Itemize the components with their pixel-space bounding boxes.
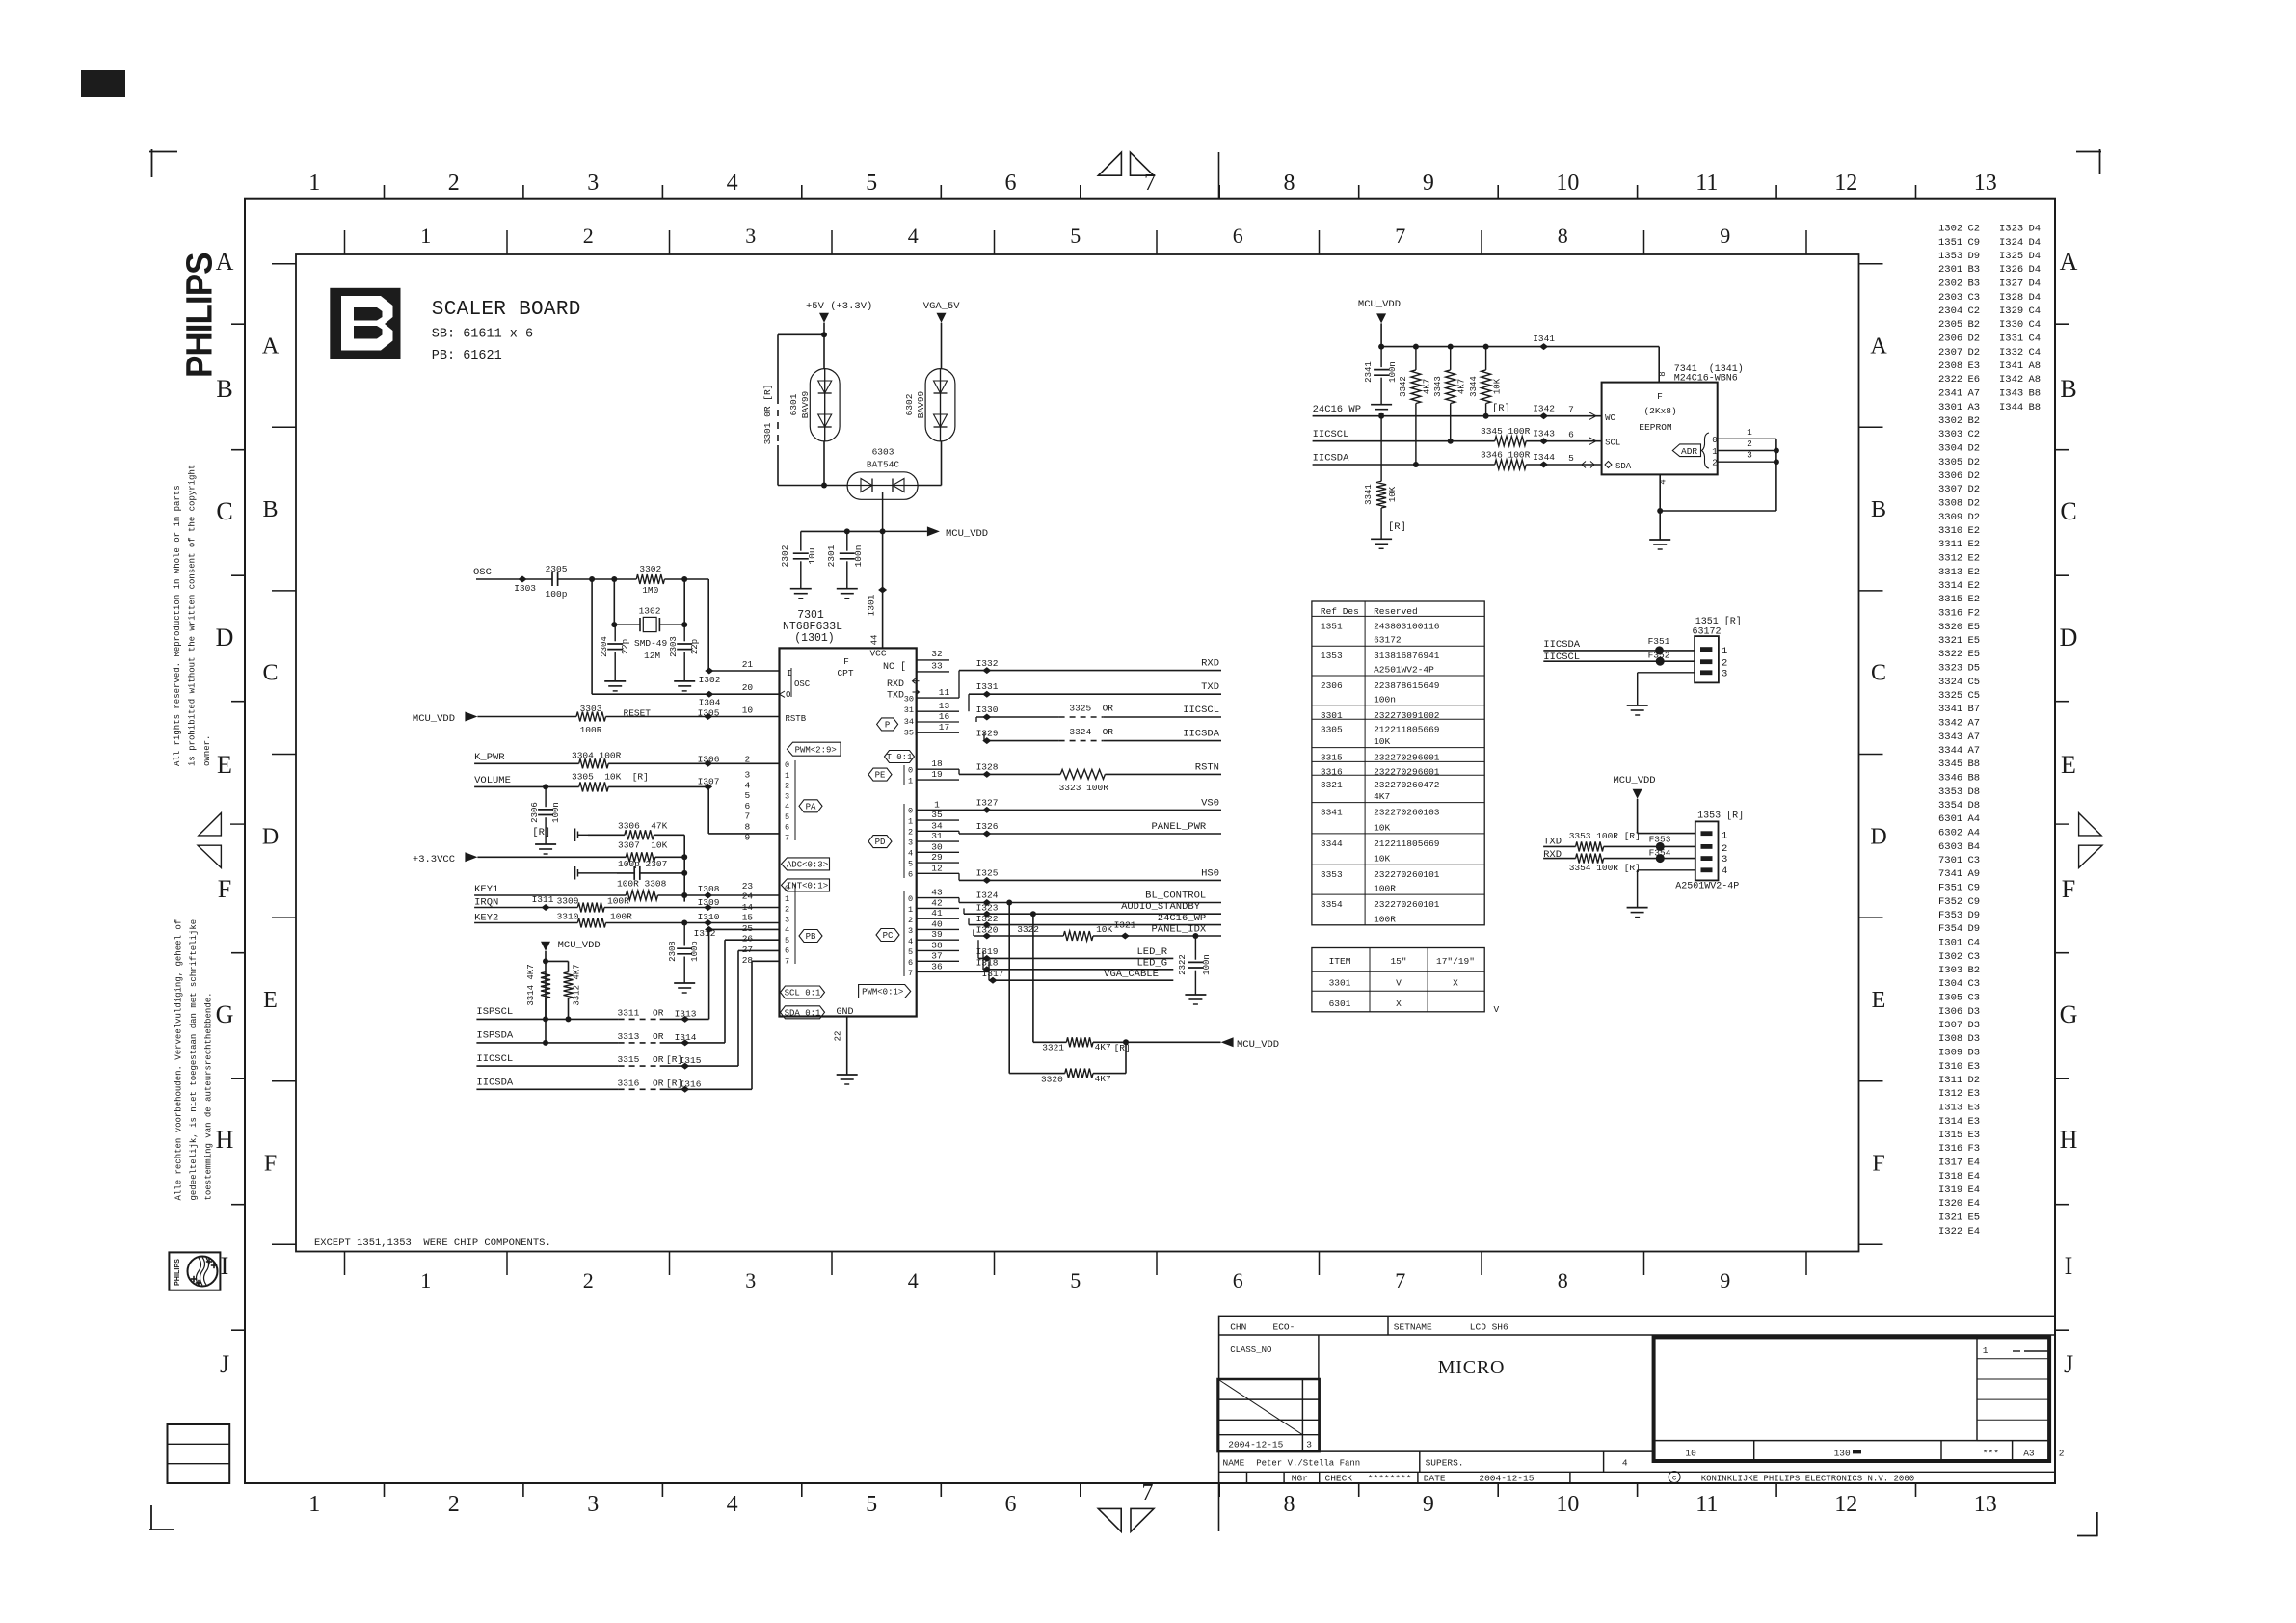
svg-text:22p: 22p xyxy=(621,639,630,654)
wire RXD xyxy=(959,670,1221,672)
svg-text:I327 D4: I327 D4 xyxy=(1999,279,2041,290)
svg-text:34: 34 xyxy=(904,717,914,727)
svg-text:25: 25 xyxy=(742,923,754,934)
svg-text:10: 10 xyxy=(1556,171,1579,196)
wire IICSCL isp xyxy=(476,1065,618,1067)
wire BL_CONTROL pull 3320 (vertical) xyxy=(1008,903,1010,1074)
wire IICSCL to connector xyxy=(1543,660,1695,662)
resistor 3310 100R xyxy=(577,918,605,928)
ground for IC pin 22 xyxy=(837,1074,858,1076)
svg-text:ITEM: ITEM xyxy=(1329,956,1351,967)
svg-text:5: 5 xyxy=(1070,1268,1081,1292)
svg-text:J: J xyxy=(2064,1350,2073,1378)
crystal 1302 SMD-49 12M xyxy=(614,624,640,625)
svg-text:5: 5 xyxy=(785,936,789,945)
svg-text:43: 43 xyxy=(931,888,943,898)
svg-text:I341: I341 xyxy=(1533,333,1555,344)
svg-text:7: 7 xyxy=(1395,224,1405,248)
svg-text:2301 B3: 2301 B3 xyxy=(1938,264,1980,276)
svg-text:I325 D4: I325 D4 xyxy=(1999,251,2041,262)
wire KEY1 xyxy=(474,894,626,896)
IC internal ADC<0:3> tag xyxy=(782,858,830,870)
connector 1351 body xyxy=(1695,636,1719,682)
svg-text:F: F xyxy=(264,1152,277,1177)
svg-text:4K7: 4K7 xyxy=(1095,1042,1111,1052)
IC right pin stubs 11 13 16 17 xyxy=(917,697,959,699)
svg-text:3: 3 xyxy=(908,838,913,848)
svg-text:I303: I303 xyxy=(514,583,536,594)
wire KEY2 xyxy=(474,922,577,924)
ground for 2301 xyxy=(837,588,858,590)
svg-text:13: 13 xyxy=(1974,1492,1997,1517)
svg-text:1: 1 xyxy=(420,224,431,248)
wire decoupling rail xyxy=(801,530,883,532)
svg-text:I306 D3: I306 D3 xyxy=(1938,1006,1980,1018)
svg-text:100R: 100R xyxy=(607,896,629,907)
svg-text:4K7: 4K7 xyxy=(1423,379,1432,394)
op-amp U7341 body (EEPROM box) xyxy=(1602,383,1718,475)
svg-text:5: 5 xyxy=(866,1492,877,1517)
svg-text:27: 27 xyxy=(742,945,753,955)
eeprom address pin 3 wire xyxy=(1718,461,1776,463)
power arrow MCU_VDD eeprom xyxy=(1376,313,1386,323)
wire LED_G xyxy=(982,950,984,969)
svg-text:4K7: 4K7 xyxy=(1374,791,1390,802)
svg-text:I342 A8: I342 A8 xyxy=(1999,374,2041,386)
svg-text:6: 6 xyxy=(1233,1268,1243,1292)
svg-text:3353 100R [R]: 3353 100R [R] xyxy=(1569,831,1641,841)
wire to pin 21 elbow xyxy=(681,576,687,582)
svg-text:3342: 3342 xyxy=(1399,376,1408,397)
ground for 2304 xyxy=(604,680,626,682)
resistor 3343 4K7 (vertical) xyxy=(1446,370,1455,404)
svg-text:13: 13 xyxy=(939,701,950,711)
svg-text:4: 4 xyxy=(908,849,913,859)
svg-text:2004-12-15: 2004-12-15 xyxy=(1228,1440,1283,1450)
svg-text:5: 5 xyxy=(785,812,789,822)
svg-text:3344: 3344 xyxy=(1469,376,1479,397)
svg-text:I332: I332 xyxy=(976,658,999,669)
capacitor 2305 100p xyxy=(551,572,553,586)
assembly marker B block xyxy=(330,288,400,359)
svg-text:F: F xyxy=(1872,1152,1884,1177)
svg-text:0: 0 xyxy=(908,807,913,816)
title block NAME row xyxy=(1219,1450,1654,1452)
svg-text:2303 C3: 2303 C3 xyxy=(1938,292,1980,304)
svg-text:PHILIPS: PHILIPS xyxy=(178,253,220,378)
svg-text:A3: A3 xyxy=(2023,1449,2035,1459)
wire IICSCL right xyxy=(976,716,1059,718)
svg-text:IICSCL: IICSCL xyxy=(476,1053,513,1065)
svg-text:E: E xyxy=(217,751,232,779)
svg-text:232273091002: 232273091002 xyxy=(1374,710,1440,721)
svg-text:100p: 100p xyxy=(546,589,568,599)
svg-text:12: 12 xyxy=(931,863,943,873)
svg-text:Peter V./Stella Fann: Peter V./Stella Fann xyxy=(1256,1459,1360,1469)
svg-text:3315: 3315 xyxy=(1321,753,1343,763)
svg-text:OR: OR xyxy=(653,1054,664,1065)
svg-text:SB: 61611 x 6: SB: 61611 x 6 xyxy=(432,328,533,342)
svg-text:VGA_5V: VGA_5V xyxy=(923,301,961,312)
capacitor 2303 22p xyxy=(683,625,685,641)
svg-text:14: 14 xyxy=(742,902,754,913)
svg-text:24C16_WP: 24C16_WP xyxy=(1313,404,1361,415)
svg-text:RESET: RESET xyxy=(624,708,652,719)
svg-text:3311 E2: 3311 E2 xyxy=(1938,539,1980,550)
wire eeprom supply rail xyxy=(1380,323,1382,346)
svg-text:10K: 10K xyxy=(1096,924,1112,935)
svg-text:PC: PC xyxy=(883,931,894,941)
svg-text:3307 D2: 3307 D2 xyxy=(1938,484,1980,495)
svg-text:2: 2 xyxy=(2059,1449,2065,1459)
wire IICSDA isp xyxy=(476,1088,618,1090)
wire 24C16_WP right xyxy=(968,918,970,924)
power arrow +5V xyxy=(819,313,829,323)
svg-text:6: 6 xyxy=(1568,430,1574,440)
svg-text:I304: I304 xyxy=(699,698,721,708)
wire +5V down to diode 6301 xyxy=(823,323,825,369)
outer grid column ticks top xyxy=(384,185,386,199)
IC internal PE hexagon and bits xyxy=(868,768,892,781)
svg-text:6: 6 xyxy=(785,823,789,833)
svg-text:T 0:1: T 0:1 xyxy=(886,753,912,762)
svg-text:3305 D2: 3305 D2 xyxy=(1938,457,1980,468)
svg-text:(2Kx8): (2Kx8) xyxy=(1643,406,1676,416)
svg-text:3320: 3320 xyxy=(1041,1075,1063,1085)
svg-text:CHECK: CHECK xyxy=(1325,1474,1353,1484)
svg-text:1351 [R]: 1351 [R] xyxy=(1695,616,1742,627)
svg-text:F: F xyxy=(2062,875,2075,903)
svg-text:10K: 10K xyxy=(1388,486,1398,502)
svg-text:B: B xyxy=(262,497,278,522)
svg-text:I326: I326 xyxy=(976,821,999,832)
svg-text:PWM<2:9>: PWM<2:9> xyxy=(795,745,837,755)
svg-text:100R: 100R xyxy=(1374,884,1396,894)
svg-text:SETNAME: SETNAME xyxy=(1394,1322,1432,1333)
resistor 3346 100R xyxy=(1495,460,1526,469)
ground for connector 1353 xyxy=(1627,907,1648,909)
cap-to-ground symbol for 2307 xyxy=(574,866,576,880)
svg-text:19: 19 xyxy=(931,769,943,780)
svg-text:PB: 61621: PB: 61621 xyxy=(432,349,502,363)
svg-text:PANEL_IDX: PANEL_IDX xyxy=(1151,924,1206,936)
svg-text:PA: PA xyxy=(806,802,816,811)
svg-text:23: 23 xyxy=(742,881,754,891)
svg-text:1: 1 xyxy=(308,1492,320,1517)
connector 1351 pin bars xyxy=(1700,647,1712,652)
svg-text:2: 2 xyxy=(1712,459,1717,468)
svg-text:9: 9 xyxy=(1423,171,1434,196)
wire +3.3VCC xyxy=(477,856,626,858)
svg-text:5: 5 xyxy=(745,790,751,801)
svg-text:3316 F2: 3316 F2 xyxy=(1938,608,1980,620)
wire LED_R xyxy=(977,940,979,958)
svg-text:SMD-49: SMD-49 xyxy=(634,638,668,649)
svg-text:HS0: HS0 xyxy=(1201,867,1219,879)
svg-text:SDA: SDA xyxy=(1615,462,1632,471)
svg-text:3353: 3353 xyxy=(1321,869,1343,880)
svg-text:10K: 10K xyxy=(1374,822,1390,833)
svg-text:24: 24 xyxy=(742,891,754,902)
IC internal PA hexagon xyxy=(799,800,822,812)
svg-text:11: 11 xyxy=(939,687,950,698)
svg-text:1: 1 xyxy=(785,894,789,904)
resistor 3302 1M0 xyxy=(614,578,636,580)
ground for 2322 xyxy=(1185,994,1206,996)
power arrow MCU_VDD connector 1353 xyxy=(1633,789,1642,799)
svg-text:X: X xyxy=(1453,978,1458,989)
svg-text:I329 C4: I329 C4 xyxy=(1999,306,2041,317)
resistor 3354 100R xyxy=(1576,854,1604,864)
svg-text:1302: 1302 xyxy=(639,606,661,617)
svg-text:3354 D8: 3354 D8 xyxy=(1938,800,1980,811)
svg-text:3354: 3354 xyxy=(1321,899,1343,910)
wire RSTN xyxy=(958,769,960,774)
connector 1353 pin bars xyxy=(1701,831,1713,836)
svg-text:5: 5 xyxy=(908,947,913,957)
svg-text:IICSDA: IICSDA xyxy=(1543,639,1581,651)
svg-text:********: ******** xyxy=(1368,1474,1412,1484)
svg-text:6302 A4: 6302 A4 xyxy=(1938,828,1980,839)
svg-text:2305: 2305 xyxy=(546,564,568,574)
svg-text:I332 C4: I332 C4 xyxy=(1999,347,2041,359)
svg-text:F353 D9: F353 D9 xyxy=(1938,910,1980,921)
svg-text:0: 0 xyxy=(908,894,913,904)
svg-text:F351 C9: F351 C9 xyxy=(1938,883,1980,894)
wire eeprom address bus to ground xyxy=(1775,439,1777,511)
svg-text:I302 C3: I302 C3 xyxy=(1938,951,1980,963)
svg-text:MCU_VDD: MCU_VDD xyxy=(946,528,988,540)
svg-text:E: E xyxy=(263,988,278,1013)
svg-text:C: C xyxy=(262,661,278,686)
svg-text:8: 8 xyxy=(1284,1492,1295,1517)
svg-text:I327: I327 xyxy=(976,797,999,808)
svg-text:6: 6 xyxy=(908,870,913,880)
svg-text:I317 E4: I317 E4 xyxy=(1938,1157,1980,1169)
table Ref Des Reserved xyxy=(1312,601,1484,925)
svg-text:3345 100R: 3345 100R xyxy=(1481,426,1531,437)
svg-text:3323 D5: 3323 D5 xyxy=(1938,663,1980,675)
svg-text:BL_CONTROL: BL_CONTROL xyxy=(1145,891,1206,902)
svg-text:3306 47K: 3306 47K xyxy=(618,821,668,832)
IC right pin stubs NC 32 33 xyxy=(917,659,949,661)
svg-text:36: 36 xyxy=(931,962,943,972)
svg-text:100R 3308: 100R 3308 xyxy=(617,879,667,890)
svg-text:OR: OR xyxy=(653,1031,664,1042)
svg-text:12M: 12M xyxy=(644,651,660,661)
svg-text:10: 10 xyxy=(1556,1492,1579,1517)
ground for 2341 xyxy=(1371,404,1392,406)
svg-text:3310 E2: 3310 E2 xyxy=(1938,525,1980,537)
IC internal SCL 0:1 hexagon xyxy=(781,986,825,998)
svg-text:3304 100R: 3304 100R xyxy=(572,751,622,761)
svg-text:3325 OR: 3325 OR xyxy=(1069,703,1113,713)
wire 24C16_WP xyxy=(1313,415,1602,417)
svg-text:3307 10K: 3307 10K xyxy=(618,840,668,851)
svg-text:313816876941: 313816876941 xyxy=(1374,651,1440,661)
svg-text:2306: 2306 xyxy=(530,802,540,823)
svg-text:3: 3 xyxy=(745,770,751,781)
svg-text:2308: 2308 xyxy=(668,941,678,962)
fold marker triangles left edge xyxy=(199,813,222,836)
svg-text:32: 32 xyxy=(931,649,943,659)
svg-text:3314 4K7: 3314 4K7 xyxy=(526,964,536,1005)
svg-text:BAV99: BAV99 xyxy=(800,390,811,418)
svg-text:3316: 3316 xyxy=(618,1078,640,1089)
svg-text:TXD: TXD xyxy=(887,690,904,701)
svg-text:3341: 3341 xyxy=(1364,484,1374,505)
svg-text:7: 7 xyxy=(1144,171,1156,196)
svg-text:is prohibited without the writ: is prohibited without the written consen… xyxy=(188,465,198,766)
wire PANEL_IDX xyxy=(973,929,974,936)
svg-text:F352 C9: F352 C9 xyxy=(1938,896,1980,908)
svg-text:1: 1 xyxy=(908,777,913,786)
svg-text:I344: I344 xyxy=(1533,452,1555,463)
svg-text:3: 3 xyxy=(1722,669,1727,680)
svg-text:232270260101: 232270260101 xyxy=(1374,899,1440,910)
svg-text:F: F xyxy=(218,875,231,903)
svg-text:40: 40 xyxy=(931,918,943,929)
svg-text:2307 D2: 2307 D2 xyxy=(1938,347,1980,359)
svg-text:[R]: [R] xyxy=(1492,403,1510,414)
svg-text:6301: 6301 xyxy=(788,393,799,415)
svg-text:A: A xyxy=(1870,334,1887,359)
svg-text:3306 D2: 3306 D2 xyxy=(1938,470,1980,482)
svg-text:3346 100R: 3346 100R xyxy=(1481,449,1531,460)
resistor 3341 10K (vertical) xyxy=(1380,416,1382,482)
svg-text:RSTB: RSTB xyxy=(786,714,807,724)
svg-text:OR: OR xyxy=(653,1078,664,1089)
resistor 3304 100R xyxy=(579,758,609,768)
inner grid row ticks right xyxy=(1859,263,1883,265)
svg-text:I322 E4: I322 E4 xyxy=(1938,1226,1980,1237)
svg-text:F354 D9: F354 D9 xyxy=(1938,923,1980,935)
svg-text:10: 10 xyxy=(1685,1449,1696,1459)
wire osc node xyxy=(589,576,595,582)
svg-text:8: 8 xyxy=(1558,1268,1568,1292)
svg-text:24C16_WP: 24C16_WP xyxy=(1158,913,1206,924)
svg-text:I324: I324 xyxy=(976,891,999,901)
svg-text:33: 33 xyxy=(931,661,943,672)
wire 3306 row xyxy=(588,834,625,836)
wire VS0 xyxy=(958,809,960,811)
svg-text:B: B xyxy=(1871,497,1886,522)
svg-text:I316 F3: I316 F3 xyxy=(1938,1143,1980,1155)
wire connector 1351 pin3 to ground xyxy=(1638,672,1695,674)
wire elbow bus RXD/TXD/IIC xyxy=(958,671,960,699)
svg-text:X: X xyxy=(1396,998,1402,1009)
svg-text:2302: 2302 xyxy=(780,545,790,567)
svg-text:K_PWR: K_PWR xyxy=(474,752,505,763)
svg-text:D: D xyxy=(1870,824,1886,849)
resistor 3342 4K7 (vertical) xyxy=(1411,370,1421,404)
svg-text:I342: I342 xyxy=(1533,404,1555,414)
svg-text:100p: 100p xyxy=(690,941,700,962)
svg-text:ISPSDA: ISPSDA xyxy=(476,1030,514,1042)
svg-text:I: I xyxy=(2065,1252,2073,1280)
svg-text:100n: 100n xyxy=(853,545,864,568)
svg-text:IICSDA: IICSDA xyxy=(476,1078,514,1089)
svg-text:4: 4 xyxy=(908,224,919,248)
svg-text:WC: WC xyxy=(1605,413,1615,423)
svg-text:2: 2 xyxy=(1747,439,1752,449)
svg-text:PD: PD xyxy=(875,838,886,847)
svg-text:1: 1 xyxy=(1983,1345,1989,1356)
svg-text:PHILIPS: PHILIPS xyxy=(173,1259,181,1286)
svg-text:7341 A9: 7341 A9 xyxy=(1938,868,1980,880)
svg-text:3302 B2: 3302 B2 xyxy=(1938,415,1980,427)
svg-text:3: 3 xyxy=(1747,450,1752,461)
svg-text:3341: 3341 xyxy=(1321,808,1343,818)
title block row CHN/SETNAME xyxy=(1219,1334,2055,1336)
ground for 2308 xyxy=(674,982,695,984)
svg-text:I309 D3: I309 D3 xyxy=(1938,1048,1980,1059)
wire ISPSCL xyxy=(476,1018,618,1020)
svg-text:I343: I343 xyxy=(1533,429,1555,439)
pin arrow into pin 20 xyxy=(780,691,786,697)
pin arrow into SCL xyxy=(1589,438,1596,444)
svg-text:LCD SH6: LCD SH6 xyxy=(1470,1322,1508,1333)
wire VOLUME xyxy=(474,785,579,787)
svg-text:11: 11 xyxy=(1695,171,1718,196)
svg-text:***: *** xyxy=(1983,1449,1999,1459)
svg-text:2: 2 xyxy=(745,755,751,765)
wire HS0 xyxy=(958,873,960,880)
svg-text:3324 OR: 3324 OR xyxy=(1069,727,1113,737)
svg-text:I301: I301 xyxy=(867,594,877,616)
svg-text:17: 17 xyxy=(939,722,949,732)
svg-text:5: 5 xyxy=(908,860,913,869)
svg-text:I321 E5: I321 E5 xyxy=(1938,1212,1980,1224)
ground for 2303 xyxy=(674,680,695,682)
svg-text:6303 B4: 6303 B4 xyxy=(1938,841,1980,853)
capacitor 2308 100p xyxy=(683,923,685,946)
svg-text:1353 D9: 1353 D9 xyxy=(1938,251,1980,262)
IC right pin stubs PD 1 35 34 31 30 29 12 xyxy=(917,809,959,811)
svg-text:3: 3 xyxy=(1722,854,1727,865)
svg-text:2305 B2: 2305 B2 xyxy=(1938,319,1980,331)
svg-text:2308 E3: 2308 E3 xyxy=(1938,360,1980,372)
svg-text:G: G xyxy=(216,1000,234,1028)
svg-text:4: 4 xyxy=(727,171,738,196)
svg-text:39: 39 xyxy=(931,929,943,940)
svg-text:3312 E2: 3312 E2 xyxy=(1938,553,1980,565)
svg-text:1: 1 xyxy=(908,905,913,915)
title block CLASS_NO cell xyxy=(1318,1335,1320,1451)
outer grid row ticks right xyxy=(2055,323,2069,325)
svg-text:Ref Des: Ref Des xyxy=(1321,606,1359,617)
capacitor 2306 100n xyxy=(543,784,548,789)
svg-text:MCU_VDD: MCU_VDD xyxy=(413,713,455,725)
svg-text:SDA 0:1: SDA 0:1 xyxy=(785,1008,821,1018)
svg-text:6301: 6301 xyxy=(1329,998,1351,1009)
svg-text:3316: 3316 xyxy=(1321,766,1343,777)
svg-text:16: 16 xyxy=(939,711,950,722)
svg-text:[R]: [R] xyxy=(1388,521,1406,533)
svg-text:J: J xyxy=(220,1350,229,1378)
svg-text:63172: 63172 xyxy=(1374,635,1402,646)
svg-text:3308 D2: 3308 D2 xyxy=(1938,498,1980,510)
svg-text:NC [: NC [ xyxy=(883,661,906,673)
svg-text:232270296001: 232270296001 xyxy=(1374,753,1440,763)
wire OSC xyxy=(476,578,552,580)
wire 3306 to 3307 junction xyxy=(683,835,685,901)
svg-text:9: 9 xyxy=(1423,1492,1434,1517)
title block bottom row xyxy=(1219,1471,2055,1473)
svg-text:I312 E3: I312 E3 xyxy=(1938,1088,1980,1100)
revision marker triangles bottom xyxy=(1098,1508,1121,1531)
svg-text:11: 11 xyxy=(1695,1492,1718,1517)
